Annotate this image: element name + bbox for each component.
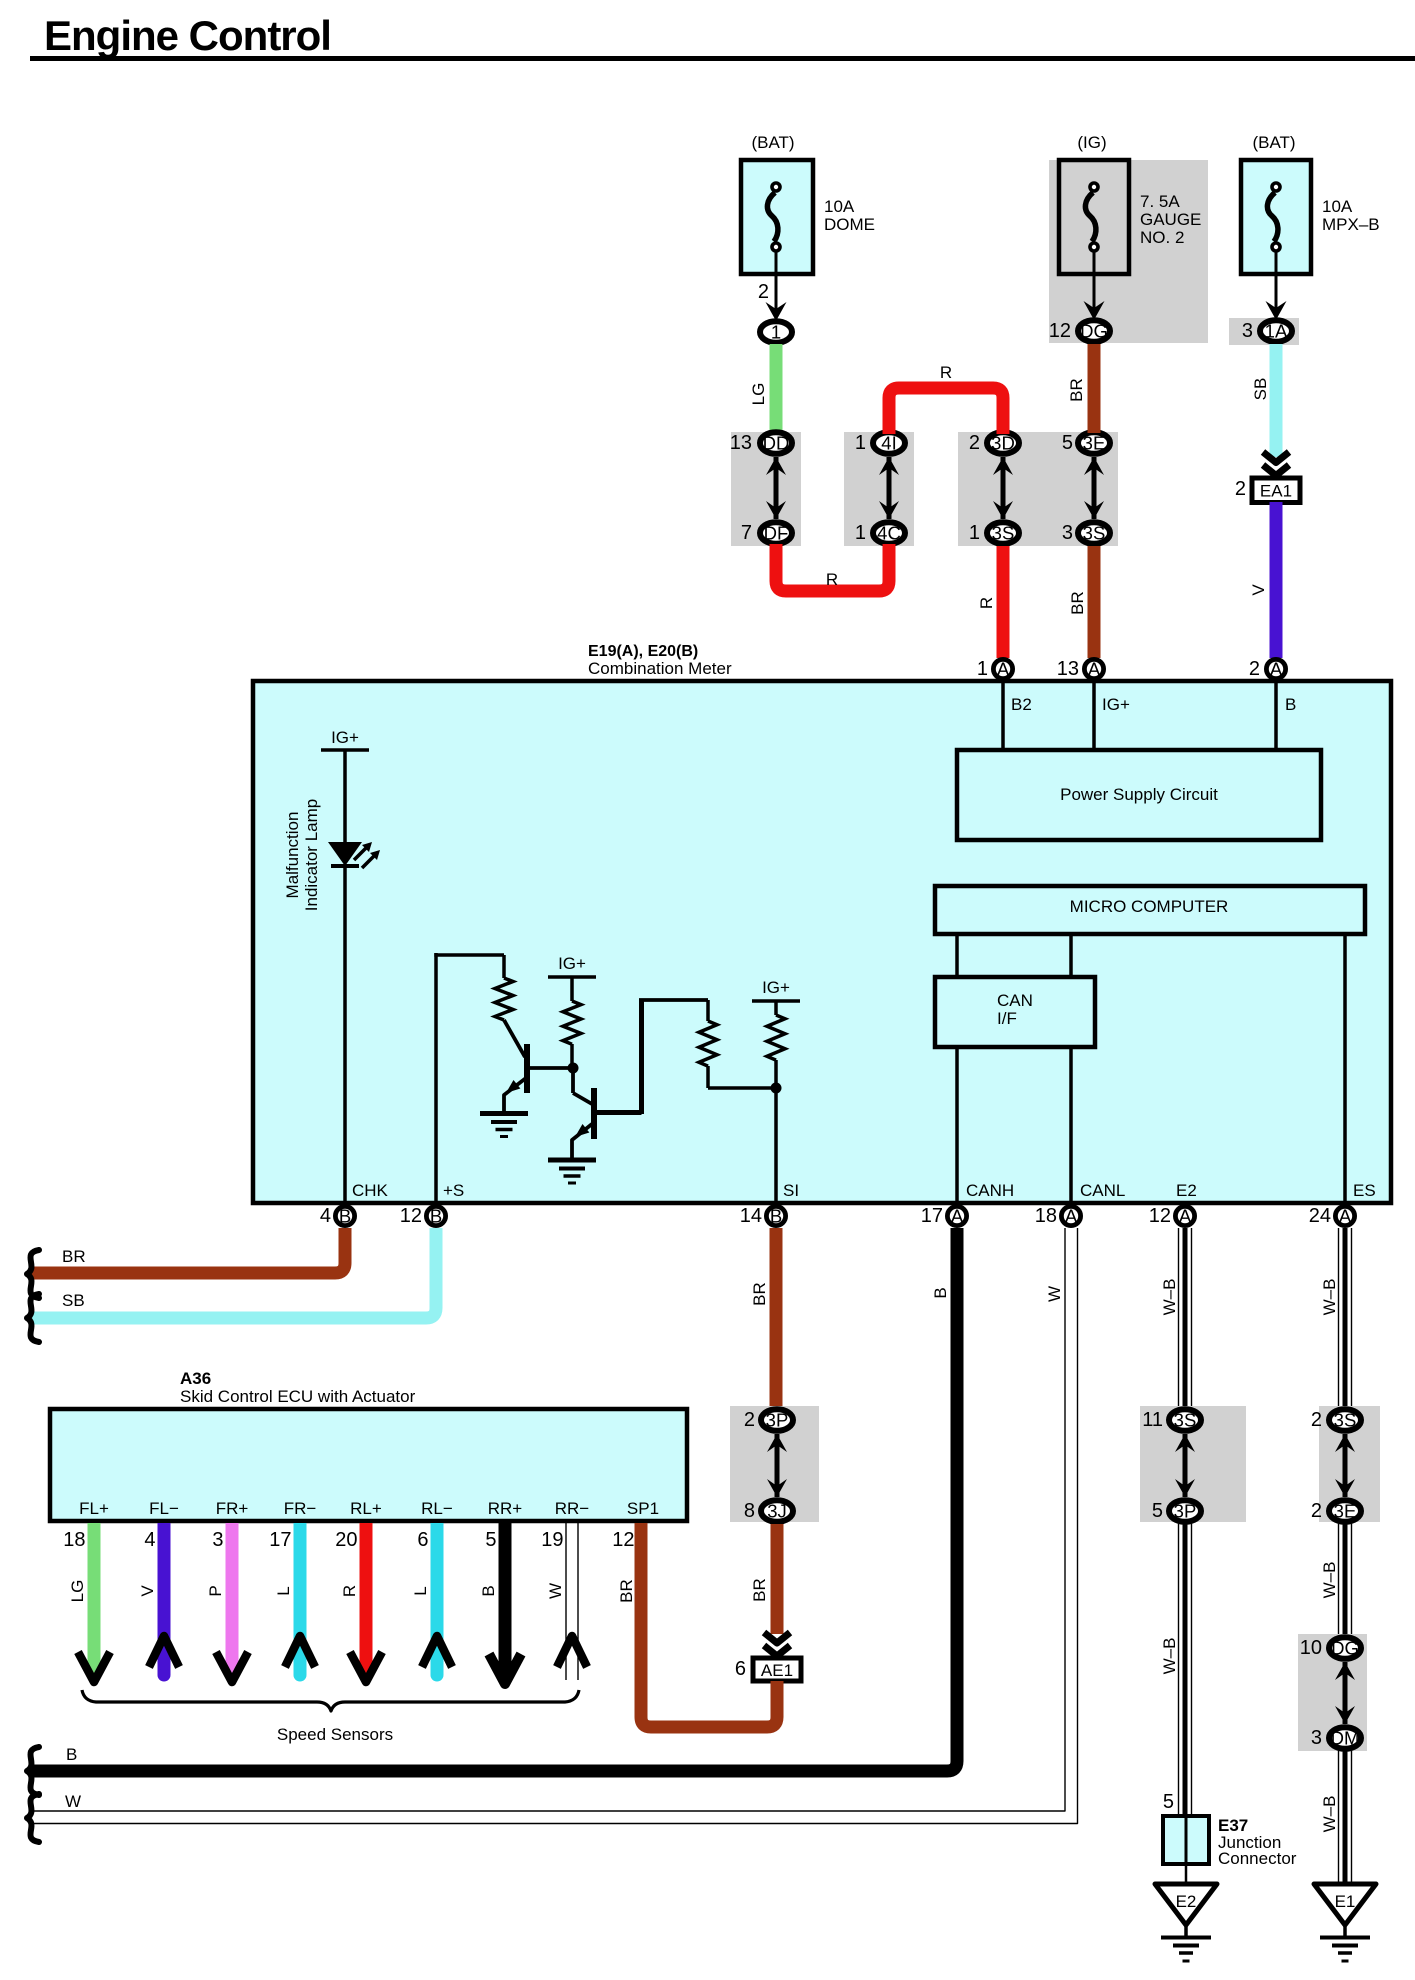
svg-text:Indicator Lamp: Indicator Lamp bbox=[302, 799, 321, 911]
svg-text:BR: BR bbox=[617, 1579, 636, 1603]
resistor R4 bbox=[767, 1001, 785, 1088]
ECU pin RR+ wire bbox=[479, 1499, 522, 1684]
micro computer box bbox=[935, 886, 1365, 934]
svg-text:18: 18 bbox=[63, 1529, 85, 1551]
svg-text:LG: LG bbox=[68, 1580, 87, 1603]
wire CANH bbox=[955, 1047, 959, 1204]
svg-text:2: 2 bbox=[1311, 1500, 1322, 1522]
svg-text:BR: BR bbox=[62, 1247, 86, 1266]
svg-text:3: 3 bbox=[1062, 522, 1073, 544]
svg-text:AE1: AE1 bbox=[761, 1661, 793, 1680]
wire break squiggle B bbox=[27, 1747, 39, 1795]
svg-text:4: 4 bbox=[320, 1205, 331, 1227]
svg-text:RR−: RR− bbox=[555, 1499, 590, 1518]
wire W-B from 3P to E37 bbox=[1160, 1524, 1192, 1816]
wire LG bbox=[749, 344, 783, 433]
svg-text:R: R bbox=[340, 1585, 359, 1597]
svg-text:SB: SB bbox=[62, 1291, 85, 1310]
ECU pin SP1 wire bbox=[612, 1499, 659, 1603]
svg-text:E2: E2 bbox=[1176, 1181, 1197, 1200]
IG+ rail for indicator lamp bbox=[321, 728, 369, 842]
svg-text:3: 3 bbox=[212, 1529, 223, 1551]
node B2 wire to power supply bbox=[1003, 681, 1032, 752]
wire Q2 base to resistor R3 bbox=[639, 1000, 708, 1114]
svg-text:12: 12 bbox=[1049, 320, 1071, 342]
wire W-B from pin 24A bbox=[1320, 1228, 1352, 1408]
meter pin 18 A bbox=[1035, 1181, 1126, 1227]
svg-text:MPX–B: MPX–B bbox=[1322, 215, 1380, 234]
svg-text:(BAT): (BAT) bbox=[1252, 133, 1295, 152]
svg-text:P: P bbox=[206, 1585, 225, 1596]
svg-text:CANH: CANH bbox=[966, 1181, 1014, 1200]
svg-text:13: 13 bbox=[730, 432, 752, 454]
wire W-B from 3E to DG bbox=[1320, 1524, 1352, 1636]
junction connector E37 bbox=[1163, 1816, 1297, 1868]
svg-text:5: 5 bbox=[1062, 432, 1073, 454]
svg-text:BR: BR bbox=[750, 1282, 769, 1306]
svg-text:GAUGE: GAUGE bbox=[1140, 210, 1201, 229]
svg-text:3S: 3S bbox=[1174, 1410, 1197, 1431]
svg-text:2: 2 bbox=[1235, 478, 1246, 500]
wire BR to meter pin 13 bbox=[1068, 546, 1101, 658]
svg-text:B: B bbox=[430, 1206, 442, 1227]
ground Q1 bbox=[480, 1114, 528, 1137]
svg-text:FR+: FR+ bbox=[216, 1499, 249, 1518]
svg-text:3: 3 bbox=[1311, 1727, 1322, 1749]
ECU pin FR− wire bbox=[269, 1499, 316, 1682]
svg-text:BR: BR bbox=[750, 1578, 769, 1602]
meter pin 13 A bbox=[1057, 658, 1104, 680]
svg-text:W–B: W–B bbox=[1160, 1279, 1179, 1316]
wire B from pin 17 to left bbox=[30, 1228, 957, 1771]
wire BR from pin 4 to left bbox=[30, 1228, 345, 1273]
wire break squiggle BR bbox=[27, 1250, 39, 1298]
svg-text:CAN: CAN bbox=[997, 991, 1033, 1010]
svg-text:A: A bbox=[1339, 1206, 1352, 1227]
svg-text:(IG): (IG) bbox=[1077, 133, 1106, 152]
svg-text:3P: 3P bbox=[766, 1410, 789, 1431]
svg-text:LG: LG bbox=[749, 383, 768, 406]
svg-text:E2: E2 bbox=[1176, 1892, 1197, 1911]
svg-text:13: 13 bbox=[1057, 658, 1079, 680]
svg-text:W–B: W–B bbox=[1160, 1638, 1179, 1675]
wire +S bbox=[434, 953, 504, 1204]
resistor R1 bbox=[495, 955, 525, 1057]
meter pin 12 A bbox=[1149, 1181, 1197, 1227]
svg-text:SB: SB bbox=[1251, 378, 1270, 401]
svg-text:IG+: IG+ bbox=[331, 728, 359, 747]
connector 1A bbox=[1260, 320, 1292, 342]
wire W-B from DM to ground E1 bbox=[1320, 1751, 1352, 1884]
node B wire to power supply bbox=[1276, 681, 1296, 752]
svg-text:10: 10 bbox=[1300, 1637, 1322, 1659]
junction connector DD/DF bbox=[730, 432, 801, 546]
svg-text:DG: DG bbox=[1080, 321, 1108, 342]
svg-text:MICRO COMPUTER: MICRO COMPUTER bbox=[1070, 897, 1229, 916]
svg-text:BR: BR bbox=[1067, 378, 1086, 402]
svg-text:24: 24 bbox=[1309, 1205, 1331, 1227]
connector AE1, pin 6 bbox=[735, 1633, 801, 1682]
svg-text:ES: ES bbox=[1353, 1181, 1376, 1200]
svg-text:A: A bbox=[997, 659, 1010, 680]
svg-text:A: A bbox=[951, 1206, 964, 1227]
svg-text:20: 20 bbox=[335, 1529, 357, 1551]
svg-text:FL+: FL+ bbox=[79, 1499, 109, 1518]
svg-text:A36: A36 bbox=[180, 1369, 211, 1388]
svg-text:5: 5 bbox=[1163, 1791, 1174, 1813]
wire V bbox=[1249, 502, 1283, 658]
svg-text:17: 17 bbox=[269, 1529, 291, 1551]
svg-text:V: V bbox=[1249, 584, 1268, 596]
svg-text:A: A bbox=[1088, 659, 1101, 680]
svg-text:B: B bbox=[339, 1206, 351, 1227]
svg-text:NO. 2: NO. 2 bbox=[1140, 228, 1184, 247]
node IG+ wire to power supply bbox=[1094, 681, 1130, 752]
svg-text:Engine Control: Engine Control bbox=[44, 12, 331, 59]
malfunction indicator lamp LED bbox=[283, 799, 380, 911]
ECU pin FR+ wire bbox=[206, 1499, 248, 1682]
svg-text:W: W bbox=[1045, 1286, 1064, 1302]
ground Q2 bbox=[548, 1160, 596, 1183]
svg-text:RR+: RR+ bbox=[488, 1499, 523, 1518]
IG+ rail middle bbox=[548, 954, 596, 977]
svg-text:12: 12 bbox=[400, 1205, 422, 1227]
wire CANL bbox=[1069, 1047, 1073, 1204]
svg-text:FR−: FR− bbox=[284, 1499, 317, 1518]
svg-text:2: 2 bbox=[744, 1409, 755, 1431]
svg-text:W: W bbox=[65, 1792, 81, 1811]
ECU pin FL+ wire bbox=[63, 1499, 110, 1682]
svg-text:I/F: I/F bbox=[997, 1009, 1017, 1028]
svg-text:A: A bbox=[1065, 1206, 1078, 1227]
svg-text:5: 5 bbox=[485, 1529, 496, 1551]
ECU pin RL− wire bbox=[411, 1499, 453, 1682]
svg-text:IG+: IG+ bbox=[558, 954, 586, 973]
svg-text:2: 2 bbox=[969, 432, 980, 454]
svg-text:B: B bbox=[479, 1585, 498, 1596]
svg-text:B2: B2 bbox=[1011, 695, 1032, 714]
CAN I/F box bbox=[935, 977, 1095, 1047]
svg-text:3J: 3J bbox=[767, 1501, 787, 1522]
wire BR from DG to 3E bbox=[1067, 344, 1101, 433]
svg-text:W–B: W–B bbox=[1320, 1796, 1339, 1833]
svg-text:A: A bbox=[1270, 659, 1283, 680]
meter pin 14 B bbox=[740, 1181, 799, 1227]
svg-text:3: 3 bbox=[1242, 320, 1253, 342]
svg-text:4I: 4I bbox=[881, 433, 896, 454]
ECU pin RL+ wire bbox=[335, 1499, 382, 1682]
junction connector 3S/3E right bbox=[1311, 1406, 1380, 1522]
wire BR from pin 14 bbox=[750, 1228, 783, 1408]
junction connector DG/DM bbox=[1298, 1634, 1367, 1751]
wire break squiggle W bbox=[27, 1794, 39, 1842]
svg-text:4: 4 bbox=[144, 1529, 155, 1551]
combination meter E19(A) E20(B) bbox=[253, 643, 1391, 1203]
wire SB from pin 12 to left bbox=[30, 1228, 436, 1318]
svg-text:1: 1 bbox=[855, 522, 866, 544]
resistor R2 bbox=[563, 977, 581, 1068]
svg-text:1: 1 bbox=[771, 322, 781, 343]
meter pin 2 A bbox=[1249, 658, 1286, 680]
wire micro computer to CAN I/F left bbox=[955, 934, 959, 977]
svg-text:3S: 3S bbox=[1334, 1410, 1357, 1431]
transistor Q2 bbox=[572, 1088, 642, 1159]
meter pin 12 B bbox=[400, 1181, 465, 1227]
svg-text:Speed Sensors: Speed Sensors bbox=[277, 1725, 393, 1744]
svg-text:19: 19 bbox=[541, 1529, 563, 1551]
title underline bbox=[30, 56, 1415, 61]
svg-text:RL+: RL+ bbox=[350, 1499, 382, 1518]
svg-text:IG+: IG+ bbox=[1102, 695, 1130, 714]
svg-text:2: 2 bbox=[1311, 1409, 1322, 1431]
svg-text:Power Supply Circuit: Power Supply Circuit bbox=[1060, 785, 1218, 804]
svg-text:Connector: Connector bbox=[1218, 1849, 1297, 1868]
node dot base Q1 bbox=[568, 1063, 579, 1094]
svg-text:Malfunction: Malfunction bbox=[283, 812, 302, 899]
svg-text:IG+: IG+ bbox=[762, 978, 790, 997]
svg-text:7: 7 bbox=[741, 522, 752, 544]
svg-text:RL−: RL− bbox=[421, 1499, 453, 1518]
svg-text:Skid Control ECU with Actuator: Skid Control ECU with Actuator bbox=[180, 1387, 416, 1406]
svg-text:(BAT): (BAT) bbox=[751, 133, 794, 152]
svg-text:DM: DM bbox=[1331, 1728, 1360, 1749]
meter pin 24 A bbox=[1309, 1181, 1376, 1227]
title bbox=[44, 12, 331, 59]
ground E2 bbox=[1155, 1884, 1217, 1961]
svg-text:3E: 3E bbox=[1083, 433, 1106, 454]
fuse 10A MPX-B bbox=[1241, 133, 1380, 274]
resistor R3 bbox=[699, 1000, 776, 1088]
svg-text:W–B: W–B bbox=[1320, 1562, 1339, 1599]
svg-text:R: R bbox=[826, 570, 838, 589]
svg-text:V: V bbox=[138, 1585, 157, 1597]
wire fuse GAUGE to connector DG, pin 12 bbox=[1049, 252, 1105, 342]
fuse 7.5A GAUGE NO.2 bbox=[1049, 133, 1208, 343]
svg-text:W–B: W–B bbox=[1320, 1279, 1339, 1316]
ECU pin FL− wire bbox=[138, 1499, 179, 1682]
svg-text:R: R bbox=[977, 597, 996, 609]
svg-text:3P: 3P bbox=[1174, 1501, 1197, 1522]
svg-text:3S: 3S bbox=[1083, 523, 1106, 544]
svg-text:FL−: FL− bbox=[149, 1499, 179, 1518]
wire fuse MPX-B to connector 1A, pin 3 bbox=[1229, 252, 1299, 345]
speed sensors brace bbox=[82, 1690, 579, 1744]
wire SB bbox=[1251, 344, 1283, 457]
svg-text:SP1: SP1 bbox=[627, 1499, 659, 1518]
svg-text:SI: SI bbox=[783, 1181, 799, 1200]
connector EA1, pin 2 bbox=[1235, 452, 1300, 503]
svg-text:6: 6 bbox=[417, 1529, 428, 1551]
fuse 10A DOME bbox=[741, 133, 875, 274]
svg-text:A: A bbox=[1179, 1206, 1192, 1227]
svg-text:8: 8 bbox=[744, 1500, 755, 1522]
svg-text:W: W bbox=[546, 1583, 565, 1599]
wire break squiggle SB bbox=[27, 1294, 39, 1342]
svg-text:B: B bbox=[66, 1745, 77, 1764]
svg-text:+S: +S bbox=[443, 1181, 464, 1200]
svg-text:E1: E1 bbox=[1335, 1892, 1356, 1911]
power supply circuit box bbox=[957, 750, 1321, 840]
junction connector 3P/3J bbox=[730, 1406, 819, 1522]
svg-text:7. 5A: 7. 5A bbox=[1140, 192, 1180, 211]
svg-text:DF: DF bbox=[764, 523, 789, 544]
svg-text:11: 11 bbox=[1142, 1409, 1163, 1431]
svg-text:4C: 4C bbox=[877, 523, 901, 544]
svg-text:L: L bbox=[274, 1586, 293, 1595]
connector 1 bbox=[760, 321, 792, 343]
svg-text:B: B bbox=[1285, 695, 1296, 714]
svg-text:12: 12 bbox=[1149, 1205, 1171, 1227]
wire R bridge 4I to 3D bbox=[889, 363, 1003, 434]
svg-text:3S: 3S bbox=[992, 523, 1015, 544]
wire SI bbox=[774, 1088, 778, 1204]
svg-text:R: R bbox=[940, 363, 952, 382]
wire ES from micro computer bbox=[1343, 934, 1347, 1204]
ECU pin RR− wire bbox=[541, 1499, 589, 1680]
svg-text:DD: DD bbox=[763, 433, 790, 454]
svg-text:CHK: CHK bbox=[352, 1181, 389, 1200]
svg-text:3E: 3E bbox=[1334, 1501, 1357, 1522]
skid control ECU A36 bbox=[50, 1369, 687, 1521]
meter pin 17 A bbox=[921, 1181, 1014, 1227]
transistor Q1 bbox=[504, 1044, 573, 1112]
wire R bridge DF to 4C bbox=[776, 544, 889, 591]
svg-text:10A: 10A bbox=[824, 197, 855, 216]
svg-text:6: 6 bbox=[735, 1658, 746, 1680]
wire W from pin 18 to left bbox=[30, 1228, 1078, 1824]
wire R to meter pin 1 bbox=[977, 546, 1010, 658]
svg-text:B: B bbox=[931, 1287, 950, 1298]
svg-text:L: L bbox=[411, 1586, 430, 1595]
svg-text:17: 17 bbox=[921, 1205, 943, 1227]
svg-text:BR: BR bbox=[1068, 591, 1087, 615]
svg-text:DOME: DOME bbox=[824, 215, 875, 234]
svg-text:2: 2 bbox=[1249, 658, 1260, 680]
svg-text:1: 1 bbox=[969, 522, 980, 544]
wire E37 to ground E2 bbox=[1185, 1864, 1188, 1884]
svg-text:18: 18 bbox=[1035, 1205, 1057, 1227]
ground E1 bbox=[1314, 1884, 1376, 1961]
connector DG bbox=[1078, 320, 1110, 342]
junction connector 4I/4C bbox=[844, 432, 914, 546]
svg-text:CANL: CANL bbox=[1080, 1181, 1125, 1200]
svg-text:3D: 3D bbox=[991, 433, 1015, 454]
meter pin 4 B bbox=[320, 1181, 389, 1227]
wire W-B from pin 12A bbox=[1160, 1228, 1192, 1408]
node dot SI bbox=[771, 1083, 782, 1094]
svg-text:14: 14 bbox=[740, 1205, 762, 1227]
wire micro computer to CAN I/F right bbox=[1069, 934, 1073, 977]
svg-text:1: 1 bbox=[977, 658, 988, 680]
wire BR from 3J to AE1 bbox=[750, 1524, 784, 1634]
junction connector 3S/3P bbox=[1140, 1406, 1246, 1522]
svg-text:DG: DG bbox=[1331, 1638, 1359, 1659]
svg-text:Combination Meter: Combination Meter bbox=[588, 659, 732, 678]
svg-text:B: B bbox=[770, 1206, 782, 1227]
svg-text:12: 12 bbox=[612, 1529, 634, 1551]
svg-text:10A: 10A bbox=[1322, 197, 1353, 216]
svg-text:E19(A), E20(B): E19(A), E20(B) bbox=[588, 643, 698, 660]
wire CHK bbox=[343, 866, 347, 1204]
wire BR SP1 to AE1 bbox=[641, 1523, 777, 1727]
IG+ rail right bbox=[752, 978, 800, 1001]
svg-text:2: 2 bbox=[758, 281, 769, 303]
svg-text:EA1: EA1 bbox=[1260, 482, 1292, 501]
svg-text:5: 5 bbox=[1152, 1500, 1163, 1522]
wire fuse DOME to connector 1, pin 2 bbox=[758, 252, 787, 321]
meter pin 1 A bbox=[977, 658, 1013, 680]
junction connector block 3D/3S and 3E/3S bbox=[958, 432, 1118, 546]
svg-text:1: 1 bbox=[855, 432, 866, 454]
svg-text:1A: 1A bbox=[1265, 321, 1288, 342]
